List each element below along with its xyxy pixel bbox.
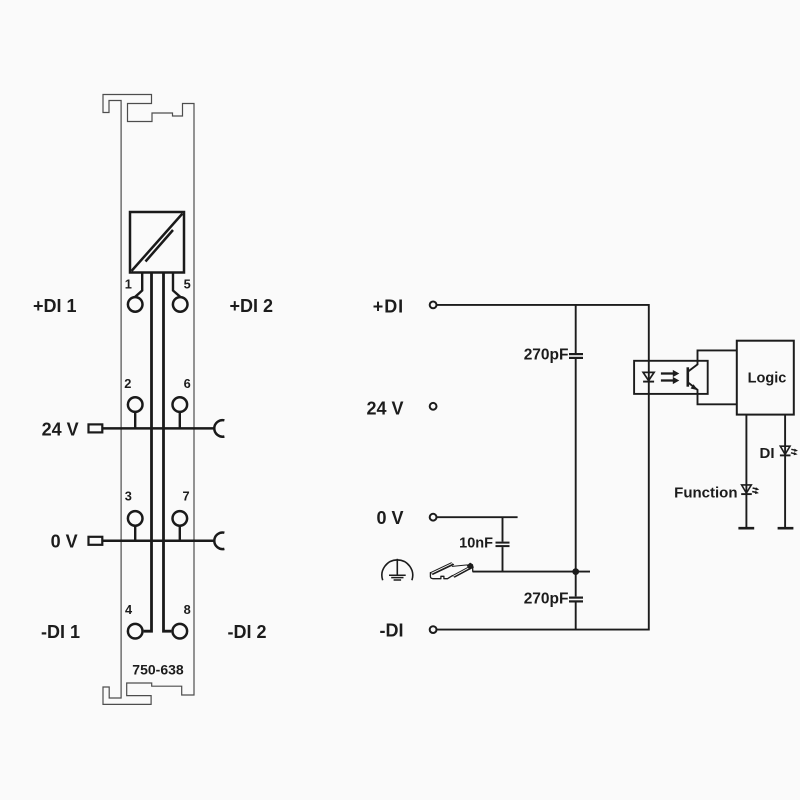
svg-text:2: 2 [124,376,131,391]
terminal +DI [430,302,437,309]
emitter arrowhead [691,384,698,390]
capacitor C3 10nF wire lower [502,547,504,572]
0V stub wire [437,516,518,518]
0V field wire [102,540,214,543]
svg-text:5: 5 [184,277,191,292]
collector wire to Logic [688,350,737,371]
capacitor C2 270pF plates [569,596,583,598]
svg-text:+DI: +DI [373,296,404,316]
svg-text:7: 7 [182,489,189,504]
opto light arrow 1 [661,372,674,374]
Function LED wire [745,415,747,529]
svg-text:-DI 2: -DI 2 [228,622,267,642]
24V terminal square [89,424,103,432]
pin 1 contact [128,297,143,312]
ground bar Function [738,527,754,530]
opto LED cathode bar [643,381,654,383]
module 750-638 body outline [103,95,194,705]
svg-text:24 V: 24 V [366,399,403,419]
phototransistor base bar [686,367,689,386]
svg-text:4: 4 [125,602,133,617]
svg-text:DI: DI [760,445,775,462]
pin 3 contact [128,511,143,526]
left end hat profile [430,573,452,579]
opto light arrow 2 [661,379,674,381]
24V socket arc [214,420,224,437]
svg-text:24 V: 24 V [42,419,79,439]
bus wire left (box to pin 4) [144,273,152,632]
svg-text:750-638: 750-638 [132,661,184,677]
terminal 24V [430,403,437,410]
stem pin3 [134,526,136,541]
earth ground symbol [382,559,413,580]
capacitor branch wire (upper) [575,305,577,353]
capacitor branch wire (middle) [575,359,577,596]
wire pin5 from box [173,273,180,297]
0V socket arc [214,533,224,550]
svg-text:270pF: 270pF [524,347,569,364]
pin 5 contact [173,297,188,312]
junction dot [572,568,579,575]
pin 8 contact [173,624,188,639]
near flange band [430,563,453,575]
svg-text:-DI 1: -DI 1 [41,622,80,642]
optocoupler box [634,361,708,394]
capacitor C3 10nF plates [496,542,510,544]
+DI wire to optocoupler and -DI return wire [437,305,649,630]
svg-text:1: 1 [125,277,132,292]
far flange band [453,566,474,578]
DI LED symbol [780,446,790,454]
svg-text:Logic: Logic [748,371,787,387]
DIN rail symbol [430,563,473,579]
0V terminal square [89,537,103,545]
pin 6 contact [173,397,188,412]
svg-text:10nF: 10nF [459,536,493,552]
svg-text:Function: Function [674,485,737,502]
stem pin7 [179,526,181,541]
emitter wire to Logic [688,382,737,404]
capacitor branch wire (lower) [575,603,577,630]
bus wire right (box to pin 8) [164,273,172,632]
svg-text:270pF: 270pF [524,590,569,607]
svg-text:+DI 2: +DI 2 [230,296,274,316]
capacitor C1 270pF plates [569,353,583,355]
opto LED triangle [643,372,654,380]
svg-text:6: 6 [184,376,191,391]
wire pin1 from box [135,273,142,297]
24V field wire [102,427,214,430]
Function LED symbol [742,485,752,493]
stem pin2 [134,412,136,429]
DI LED wire [784,415,786,529]
Logic box U2 [737,341,794,415]
svg-text:0 V: 0 V [376,508,403,528]
pin 4 contact [128,624,143,639]
svg-text:-DI: -DI [380,620,404,640]
svg-text:3: 3 [125,489,132,504]
terminal 0V [430,514,437,521]
svg-text:0 V: 0 V [51,532,78,552]
pin 7 contact [173,511,188,526]
filter/converter box U1 [130,212,184,273]
terminal -DI [430,626,437,633]
right end cap [467,563,473,569]
svg-text:8: 8 [184,602,191,617]
ground bus wire [473,571,591,573]
converter diagonal short [146,230,174,262]
channel far edge [452,565,467,567]
ground bar DI [778,527,794,530]
pin 2 contact [128,397,143,412]
svg-text:+DI 1: +DI 1 [33,296,77,316]
converter diagonal main [132,214,183,272]
stem pin6 [179,412,181,429]
capacitor C3 10nF wire upper [502,517,504,541]
